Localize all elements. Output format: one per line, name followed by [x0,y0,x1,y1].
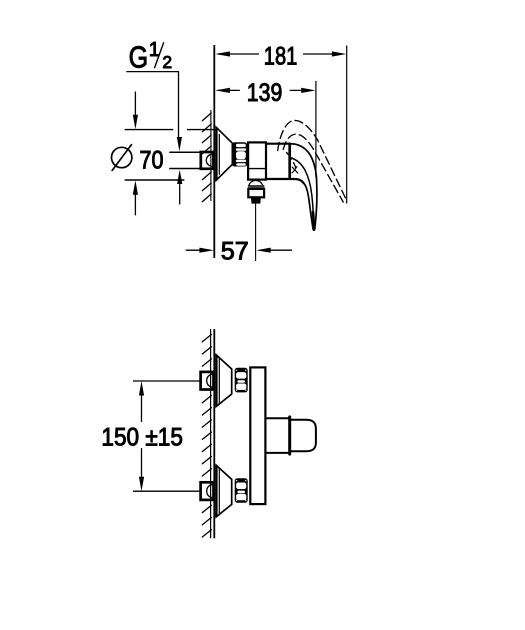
upper S-union nut (plan view) [235,368,248,393]
svg-text:G: G [129,41,149,75]
lever handle raised position (dashed) [278,120,347,202]
lower arrow of G1/2 thread (points up at pipe bottom) [177,170,182,204]
mixer body plate (plan view) [250,367,265,504]
cartridge housing (plan view) [265,417,289,454]
dimension 57 (side view, bottom) [186,238,291,266]
G1/2 leader line and arrow to inlet [127,72,182,152]
handle dome cap (plan view) [290,420,316,452]
dimension 139 (side view) [215,79,315,107]
S-union nut (side view) [232,142,248,166]
svg-text:139: 139 [247,79,282,107]
svg-text:181: 181 [264,43,298,71]
extension line right of 181 [346,46,348,204]
wall (plan view) [211,329,215,538]
wall hatching (plan view) [202,335,211,538]
wall (side view, vertical line with hatching) [211,45,214,258]
extension line from outlet centre [255,204,257,261]
fitting inner arc [206,154,213,167]
supply pipe (side view) [170,152,201,168]
svg-text:150 ±15: 150 ±15 [101,424,182,452]
mixer body mid section (side view) [266,144,304,184]
mousseur / outlet nipple (black) [251,197,261,203]
extension line right of 139 [315,81,317,178]
svg-text:2: 2 [162,52,172,72]
shower outlet elbow (side view) [248,181,264,198]
wall fitting / union square (side view) [201,152,214,169]
upper wall fitting square (plan view) [201,372,214,390]
dimension 181 (side view, top) [215,43,346,71]
svg-text:57: 57 [221,238,249,266]
lever handle (solid, rest position) [290,144,317,230]
label G 1/2 with fraction [129,39,172,75]
dimension 150 ±15 (plan view) [101,381,199,491]
label Ø70 [112,145,164,175]
lower wall fitting square (plan view) [201,482,214,500]
svg-text:70: 70 [140,146,164,174]
mixer body rear block (side view) [248,142,266,179]
upper escutcheon (plan view) [216,355,232,407]
lower escutcheon (plan view) [216,465,232,517]
escutcheon (side view cone) [216,127,232,180]
dimension lines Ø70 [125,92,215,215]
lower S-union nut (plan view) [235,478,248,503]
wall hatching (side view) [202,113,211,202]
